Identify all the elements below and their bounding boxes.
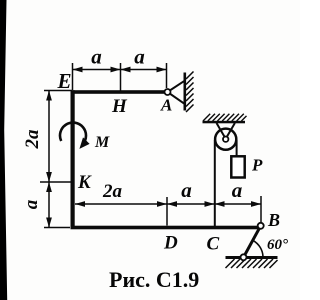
svg-text:a: a — [232, 178, 243, 202]
svg-text:a: a — [181, 178, 192, 202]
svg-text:C: C — [207, 234, 220, 255]
pulley hub — [223, 137, 228, 142]
svg-text:B: B — [267, 210, 280, 230]
svg-text:a: a — [91, 45, 102, 69]
wall hatching — [186, 72, 194, 113]
svg-text:a: a — [21, 199, 42, 209]
pin circle at ground — [241, 254, 247, 260]
pin circle B — [258, 223, 264, 229]
pin support at A: wall — [165, 72, 194, 113]
svg-text:a: a — [134, 45, 145, 69]
svg-text:A: A — [160, 96, 172, 115]
60 degree arc — [253, 240, 263, 257]
svg-text:M: M — [94, 134, 110, 151]
ground (hatched) — [226, 256, 278, 268]
rope pulley to weight — [236, 140, 238, 157]
svg-text:H: H — [111, 96, 128, 117]
top dimension line — [73, 63, 167, 91]
svg-text:K: K — [77, 172, 92, 193]
moment M arc — [60, 123, 90, 149]
support rod at B — [244, 226, 261, 257]
rope pulley to C — [214, 140, 216, 227]
pin circle A — [165, 89, 171, 95]
svg-text:60°: 60° — [267, 237, 288, 253]
scan page edge strip — [0, 0, 7, 300]
svg-text:Рис. С1.9: Рис. С1.9 — [109, 267, 199, 292]
member EA (top beam) — [71, 90, 168, 94]
svg-text:D: D — [163, 233, 178, 254]
svg-text:P: P — [251, 156, 263, 175]
pulley wheel — [215, 129, 236, 150]
svg-text:2a: 2a — [102, 181, 123, 202]
pulley bracket — [217, 123, 235, 139]
bottom dimension line — [75, 196, 261, 226]
member corner-to-B (bottom beam) — [71, 226, 261, 230]
left dimension line — [40, 91, 73, 228]
support triangle — [168, 81, 185, 104]
svg-text:E: E — [57, 69, 72, 93]
ceiling mount (hatched) — [203, 114, 247, 124]
member E-to-corner (left vertical) — [71, 90, 75, 229]
weight P box — [231, 156, 244, 177]
svg-text:2a: 2a — [22, 129, 43, 150]
